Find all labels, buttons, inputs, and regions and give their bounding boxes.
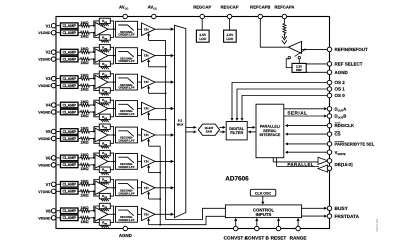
svg-text:1MΩ: 1MΩ (80, 206, 88, 210)
svg-text:LDO: LDO (199, 37, 206, 41)
svg-text:V7: V7 (45, 182, 51, 187)
svg-text:AGND: AGND (335, 70, 349, 75)
svg-text:V5: V5 (45, 129, 51, 134)
svg-text:SAR: SAR (206, 130, 213, 134)
svg-text:T/H: T/H (144, 186, 149, 190)
svg-text:V2: V2 (45, 50, 51, 55)
svg-text:MUX: MUX (177, 122, 184, 126)
svg-text:PARALLEL: PARALLEL (287, 162, 314, 167)
svg-text:REFCAPA: REFCAPA (274, 5, 294, 10)
svg-text:1MΩ: 1MΩ (80, 167, 88, 171)
svg-text:AD7606: AD7606 (225, 175, 249, 182)
svg-text:ORDER LPF: ORDER LPF (118, 218, 134, 222)
svg-text:CLAMP: CLAMP (62, 156, 76, 160)
svg-text:V1GND: V1GND (38, 31, 51, 35)
svg-text:SERIAL: SERIAL (287, 111, 307, 116)
svg-text:1MΩ: 1MΩ (80, 179, 88, 183)
svg-text:1MΩ: 1MΩ (80, 114, 88, 118)
svg-text:T/H: T/H (144, 80, 149, 84)
svg-text:ORDER LPF: ORDER LPF (118, 191, 134, 195)
svg-text:CLAMP: CLAMP (62, 163, 76, 167)
svg-text:ORDER LPF: ORDER LPF (118, 112, 134, 116)
svg-text:CONVST B: CONVST B (245, 236, 270, 241)
svg-text:T/H: T/H (144, 212, 149, 216)
svg-text:CLAMP: CLAMP (62, 57, 76, 61)
svg-text:CLK OSC: CLK OSC (255, 191, 272, 195)
svg-text:FILTER: FILTER (230, 131, 243, 135)
svg-text:1MΩ: 1MΩ (80, 35, 88, 39)
svg-text:ORDER LPF: ORDER LPF (118, 165, 134, 169)
svg-text:REFCAPB: REFCAPB (250, 5, 270, 10)
svg-text:09476-001: 09476-001 (376, 218, 379, 231)
svg-text:V1: V1 (45, 23, 51, 28)
svg-text:INPUTS: INPUTS (256, 212, 272, 217)
svg-text:T/H: T/H (144, 133, 149, 137)
svg-text:V6GND: V6GND (38, 163, 51, 167)
svg-text:RANGE: RANGE (290, 236, 307, 241)
svg-text:V8: V8 (45, 208, 51, 213)
svg-text:V8GND: V8GND (38, 216, 51, 220)
svg-text:CLAMP: CLAMP (62, 137, 76, 141)
svg-text:V4GND: V4GND (38, 111, 51, 115)
svg-text:T/H: T/H (144, 160, 149, 164)
svg-text:1MΩ: 1MΩ (80, 21, 88, 25)
svg-text:REF SELECT: REF SELECT (335, 62, 363, 67)
svg-text:V3: V3 (45, 76, 51, 81)
svg-text:V3GND: V3GND (38, 84, 51, 88)
svg-text:CLAMP: CLAMP (62, 31, 76, 35)
svg-text:CLAMP: CLAMP (62, 183, 76, 187)
svg-text:ORDER LPF: ORDER LPF (118, 86, 134, 90)
svg-text:1MΩ: 1MΩ (80, 47, 88, 51)
svg-text:BUSY: BUSY (335, 206, 349, 212)
svg-text:CLAMP: CLAMP (62, 77, 76, 81)
svg-text:CLAMP: CLAMP (62, 209, 76, 213)
svg-text:1MΩ: 1MΩ (80, 88, 88, 92)
svg-text:ORDER LPF: ORDER LPF (118, 33, 134, 37)
svg-text:ORDER LPF: ORDER LPF (118, 59, 134, 63)
svg-text:T/H: T/H (144, 27, 149, 31)
svg-text:1MΩ: 1MΩ (80, 61, 88, 65)
svg-text:1MΩ: 1MΩ (80, 141, 88, 145)
svg-text:T/H: T/H (144, 54, 149, 58)
svg-text:V2GND: V2GND (38, 58, 51, 62)
svg-text:CLAMP: CLAMP (62, 103, 76, 107)
svg-text:1MΩ: 1MΩ (80, 153, 88, 157)
svg-text:V6: V6 (45, 156, 51, 161)
svg-text:INTERFACE: INTERFACE (259, 133, 280, 137)
svg-text:V7GND: V7GND (38, 190, 51, 194)
svg-text:OS 1: OS 1 (335, 87, 346, 92)
svg-text:RESET: RESET (271, 236, 287, 241)
svg-text:CLAMP: CLAMP (62, 190, 76, 194)
svg-text:1MΩ: 1MΩ (80, 74, 88, 78)
svg-text:CLAMP: CLAMP (62, 130, 76, 134)
svg-text:CLAMP: CLAMP (62, 50, 76, 54)
svg-text:REFIN/REFOUT: REFIN/REFOUT (335, 47, 369, 52)
svg-text:DB[15:0]: DB[15:0] (335, 162, 354, 167)
svg-text:CLAMP: CLAMP (62, 24, 76, 28)
svg-text:CLAMP: CLAMP (62, 110, 76, 114)
svg-text:FRSTDATA: FRSTDATA (335, 214, 360, 219)
svg-text:REF: REF (296, 68, 302, 72)
svg-text:1MΩ: 1MΩ (80, 127, 88, 131)
svg-text:V4: V4 (45, 103, 51, 108)
svg-text:1MΩ: 1MΩ (80, 100, 88, 104)
svg-text:OS 2: OS 2 (335, 80, 346, 85)
svg-text:CS: CS (335, 132, 341, 137)
svg-text:OS 0: OS 0 (335, 93, 346, 98)
svg-text:T/H: T/H (144, 107, 149, 111)
svg-text:AGND: AGND (119, 233, 132, 238)
svg-text:V5GND: V5GND (38, 137, 51, 141)
svg-text:PAR/SER/BYTE SEL: PAR/SER/BYTE SEL (335, 141, 375, 146)
svg-text:CLAMP: CLAMP (62, 84, 76, 88)
svg-text:1MΩ: 1MΩ (80, 220, 88, 224)
svg-text:CLAMP: CLAMP (62, 216, 76, 220)
svg-text:REGCAP: REGCAP (221, 5, 239, 10)
svg-text:ORDER LPF: ORDER LPF (118, 139, 134, 143)
svg-text:REGCAP: REGCAP (193, 5, 211, 10)
svg-text:1MΩ: 1MΩ (80, 193, 88, 197)
svg-text:RD/SCLK: RD/SCLK (335, 123, 355, 128)
svg-text:LDO: LDO (226, 37, 233, 41)
